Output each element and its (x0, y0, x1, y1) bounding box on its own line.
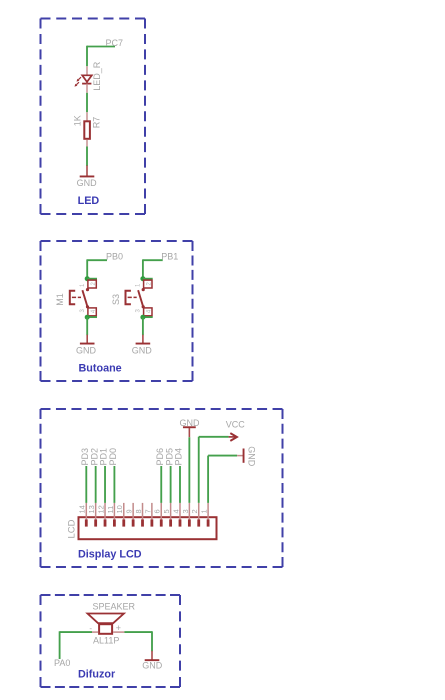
svg-text:M1: M1 (55, 293, 65, 306)
svg-text:1: 1 (200, 509, 209, 513)
svg-text:PD4: PD4 (174, 448, 184, 466)
svg-text:5: 5 (162, 509, 171, 513)
svg-text:4: 4 (171, 509, 180, 513)
svg-text:SPEAKER: SPEAKER (93, 602, 136, 612)
svg-text:2: 2 (190, 509, 199, 513)
svg-text:11: 11 (106, 506, 115, 514)
svg-text:PB0: PB0 (106, 251, 123, 261)
svg-text:PB1: PB1 (161, 251, 178, 261)
svg-text:GND: GND (77, 178, 98, 188)
svg-text:Butoane: Butoane (79, 363, 122, 375)
svg-text:LCD: LCD (67, 519, 78, 538)
svg-text:PC7: PC7 (106, 38, 124, 48)
svg-text:13: 13 (87, 505, 96, 513)
svg-text:GND: GND (132, 346, 153, 356)
svg-text:3: 3 (181, 509, 190, 513)
svg-text:6: 6 (153, 509, 162, 513)
svg-text:9: 9 (125, 509, 134, 513)
svg-text:GND: GND (246, 446, 256, 467)
svg-text:R7: R7 (92, 117, 102, 129)
svg-text:GND: GND (142, 660, 163, 670)
svg-text:S3: S3 (111, 294, 121, 305)
svg-text:14: 14 (78, 505, 87, 513)
svg-text:8: 8 (134, 509, 143, 513)
svg-text:PA0: PA0 (54, 658, 70, 668)
svg-text:AL11P: AL11P (93, 636, 119, 646)
svg-text:LED_R: LED_R (92, 61, 102, 91)
svg-text:Difuzor: Difuzor (78, 669, 116, 681)
svg-text:10: 10 (115, 505, 124, 513)
svg-text:VCC: VCC (226, 420, 246, 430)
svg-text:+: + (116, 623, 121, 633)
svg-text:7: 7 (143, 509, 152, 513)
svg-text:Display LCD: Display LCD (78, 549, 142, 561)
svg-text:12: 12 (96, 505, 105, 513)
svg-text:GND: GND (76, 346, 97, 356)
svg-text:PD0: PD0 (108, 448, 118, 466)
svg-text:LED: LED (78, 195, 100, 207)
svg-text:1K: 1K (73, 115, 83, 126)
